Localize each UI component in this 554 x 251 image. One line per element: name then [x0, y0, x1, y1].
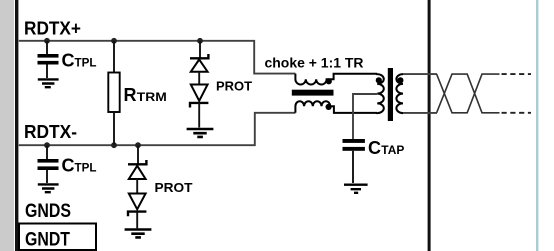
junction dot on RDTX- at PROT [135, 142, 141, 148]
ground (top PROT) [187, 129, 214, 137]
choke polarity dot (top) [326, 78, 332, 84]
ground (top CTPL) [38, 79, 59, 87]
junction dot on RDTX+ at CTPL [44, 38, 50, 44]
choke L1 top winding [295, 74, 377, 85]
svg-text:TPL: TPL [75, 162, 97, 174]
protection diodes PROT (top pair) [190, 41, 208, 128]
svg-text:RDTX-: RDTX- [24, 122, 77, 142]
transformer T1 primary winding [377, 74, 384, 113]
junction dot on RDTX- at CTPL [44, 142, 50, 148]
node GNDS label [25, 201, 71, 222]
capacitor CTPL (bottom) [38, 146, 59, 184]
svg-text:TRM: TRM [137, 90, 167, 104]
node GNDT box [19, 224, 96, 251]
choke core [292, 90, 334, 96]
junction dot on RDTX+ at PROT [197, 38, 203, 44]
wire RDTX- rail [19, 113, 296, 145]
twisted pair wire A [437, 74, 500, 113]
wire RDTX+ rail [19, 41, 296, 74]
svg-text:GNDS: GNDS [25, 201, 71, 222]
svg-text:TAP: TAP [381, 145, 404, 157]
resistor RTRM [108, 41, 119, 145]
svg-text:C: C [62, 155, 75, 175]
label RTRM [124, 85, 167, 105]
label PROT (top) [216, 78, 252, 93]
twisted pair wire B [437, 74, 500, 113]
choke L1 bottom winding [295, 101, 377, 113]
wire secondary top [403, 73, 437, 75]
protection diodes PROT (bottom pair) [128, 146, 146, 229]
svg-text:GNDT: GNDT [25, 230, 70, 251]
ground (CTAP) [344, 185, 368, 193]
transformer primary polarity dot [376, 77, 382, 83]
junction dot on RDTX- at RTRM [111, 142, 117, 148]
svg-text:C: C [368, 138, 381, 158]
svg-text:PROT: PROT [216, 78, 252, 93]
svg-text:R: R [124, 85, 137, 105]
label CTPL (top) [62, 50, 97, 70]
label CTAP [368, 138, 405, 158]
transformer core [388, 68, 393, 121]
wire secondary bottom [403, 112, 437, 114]
label CTPL (bottom) [62, 155, 97, 175]
wire center tap [353, 94, 377, 139]
node GNDT label [25, 230, 70, 251]
node RDTX+ label [24, 19, 81, 39]
svg-text:RDTX+: RDTX+ [24, 19, 81, 39]
svg-text:C: C [62, 50, 75, 70]
dashed continuation top [502, 73, 532, 75]
capacitor CTAP [343, 139, 365, 183]
svg-text:TPL: TPL [75, 57, 97, 69]
ground (bottom PROT) [125, 230, 152, 238]
svg-text:choke + 1:1 TR: choke + 1:1 TR [265, 55, 364, 70]
junction dot on RDTX+ at RTRM [111, 38, 117, 44]
label choke + 1:1 TR [265, 55, 364, 70]
transformer T1 secondary winding [396, 74, 403, 113]
dashed continuation bottom [502, 112, 532, 114]
capacitor CTPL (top) [38, 41, 59, 78]
svg-text:PROT: PROT [155, 180, 193, 195]
transformer secondary polarity dot [397, 77, 403, 83]
label PROT (bottom) [155, 180, 193, 195]
ground (bottom CTPL) [38, 184, 59, 192]
node RDTX- label [24, 122, 77, 142]
choke polarity dot (bottom) [326, 104, 332, 110]
